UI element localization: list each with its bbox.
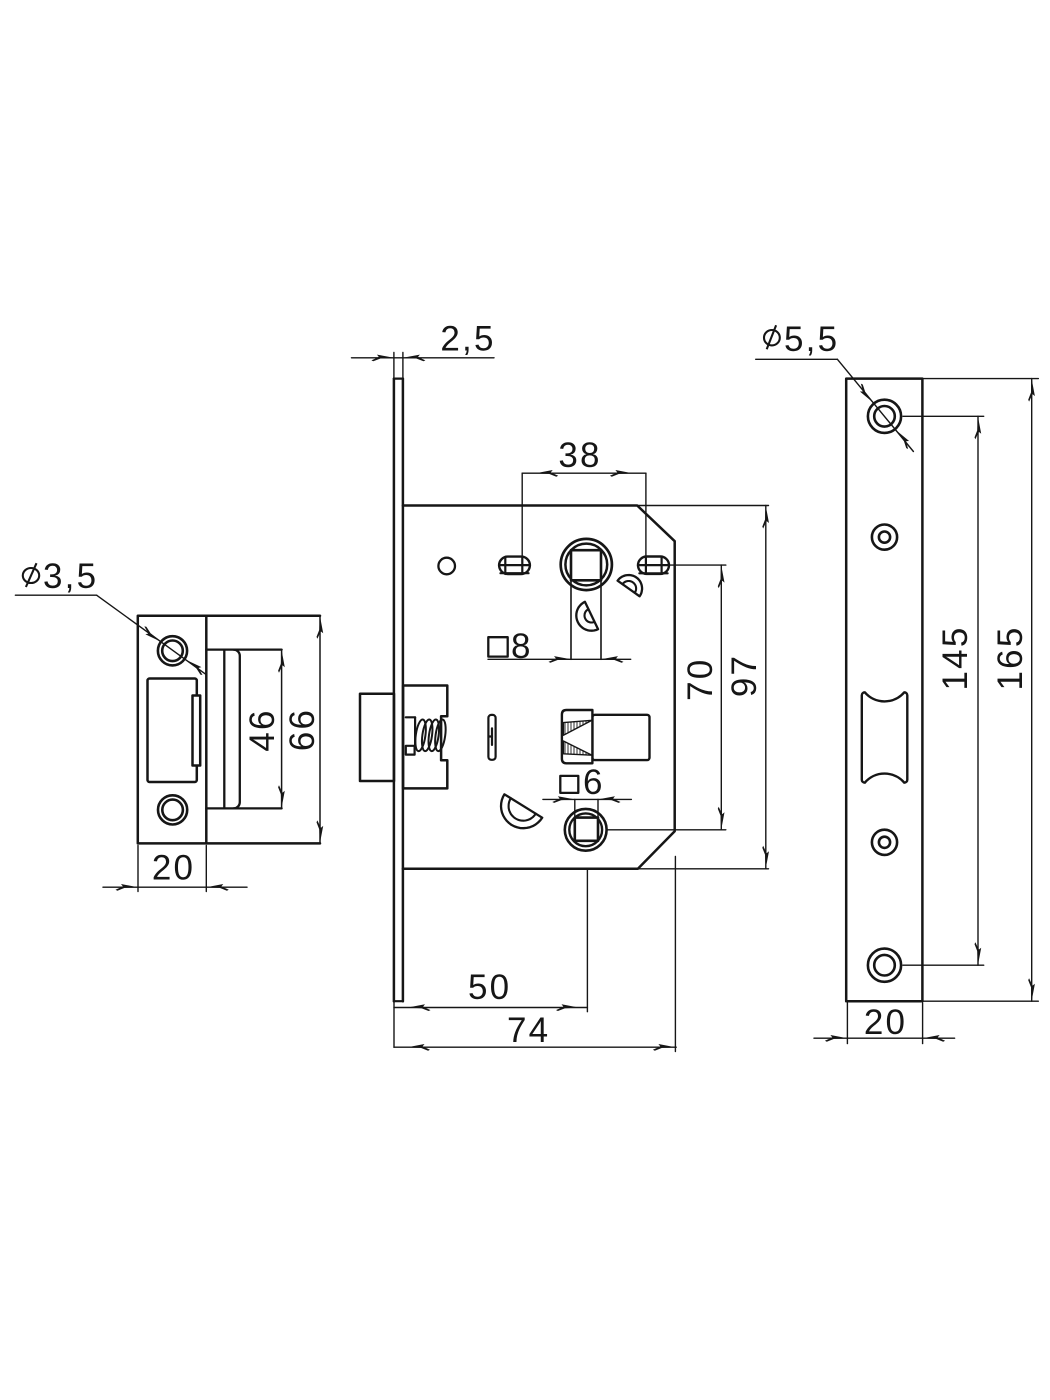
svg-text:165: 165	[991, 626, 1030, 691]
lip tongue rounded edge	[234, 650, 240, 809]
dimension 38	[522, 473, 646, 556]
dimension 20 (strike plate)	[103, 846, 247, 892]
body top edge extension (97)	[637, 505, 768, 507]
dimension 46 line	[281, 650, 283, 809]
top screw hole of strike plate	[158, 636, 187, 665]
right oval hole	[638, 557, 669, 574]
crescent right of hub	[618, 575, 643, 596]
dimension 2.5	[352, 353, 495, 379]
bottom spindle square 6mm	[575, 818, 598, 841]
svg-text:5,5: 5,5	[784, 320, 839, 359]
left oval hole	[499, 557, 530, 574]
bottom spindle	[565, 809, 607, 851]
label d3.5	[23, 557, 98, 596]
faceplate front outline	[846, 379, 922, 1002]
svg-text:38: 38	[558, 436, 601, 475]
dimension square-6	[560, 776, 578, 793]
svg-text:46: 46	[243, 708, 282, 751]
latch bolt seen in opening	[193, 696, 201, 766]
svg-text:2,5: 2,5	[440, 320, 495, 359]
faceplate strip	[394, 379, 403, 1002]
follower mechanism left block	[562, 710, 593, 763]
svg-text:20: 20	[152, 849, 195, 888]
lip notch bottom edge	[206, 807, 281, 809]
svg-text:97: 97	[725, 654, 764, 697]
lip bend line	[223, 651, 225, 807]
dimension 165	[922, 379, 1038, 1002]
lower small hole	[872, 830, 897, 855]
dimension square-8	[488, 637, 507, 656]
strike plate outline	[138, 616, 320, 844]
crescent below hub	[576, 602, 598, 631]
upper small hole	[872, 525, 897, 550]
lock body outline	[403, 506, 675, 869]
dimension 50	[394, 870, 587, 1047]
dimension 66 line	[319, 616, 321, 844]
svg-text:20: 20	[864, 1003, 907, 1042]
latch bolt head	[360, 694, 394, 781]
body bottom edge extension (97)	[638, 868, 769, 870]
spindle square 8mm	[571, 550, 601, 580]
follower mechanism right block	[592, 715, 649, 760]
lip notch top edge	[206, 648, 281, 650]
dimension 145	[903, 416, 984, 965]
svg-text:70: 70	[681, 658, 720, 701]
strike plate fold boundary line	[205, 616, 208, 844]
svg-text:8: 8	[511, 627, 533, 666]
latch body	[403, 686, 447, 789]
spindle hub	[561, 539, 612, 590]
svg-text:6: 6	[583, 763, 605, 802]
svg-text:50: 50	[468, 968, 511, 1007]
svg-text:145: 145	[936, 626, 975, 691]
dimension d5.5 leader	[756, 359, 914, 451]
label d5.5	[764, 320, 839, 359]
small round hole	[438, 558, 455, 575]
latch cutout	[862, 692, 908, 782]
latch opening	[148, 679, 197, 783]
guide slot	[488, 715, 495, 760]
svg-text:74: 74	[507, 1011, 550, 1050]
svg-text:66: 66	[283, 708, 322, 751]
hatched wedge bottom	[563, 741, 592, 755]
dimension 70	[607, 565, 726, 830]
dimension 20 (faceplate)	[814, 1003, 955, 1044]
dimension d3.5 leader	[15, 595, 205, 674]
latch spring seat	[406, 717, 415, 754]
svg-text:3,5: 3,5	[43, 557, 98, 596]
dimension 74	[394, 857, 676, 1052]
bottom screw hole of strike plate	[158, 795, 187, 824]
hatched wedge top	[563, 720, 592, 735]
top screw hole	[868, 400, 901, 433]
bottom screw hole	[868, 949, 901, 982]
latch spring coil	[414, 719, 448, 752]
crescent lower left	[501, 794, 542, 828]
dimension 97	[765, 506, 767, 869]
square shaft extension lines	[570, 580, 572, 659]
